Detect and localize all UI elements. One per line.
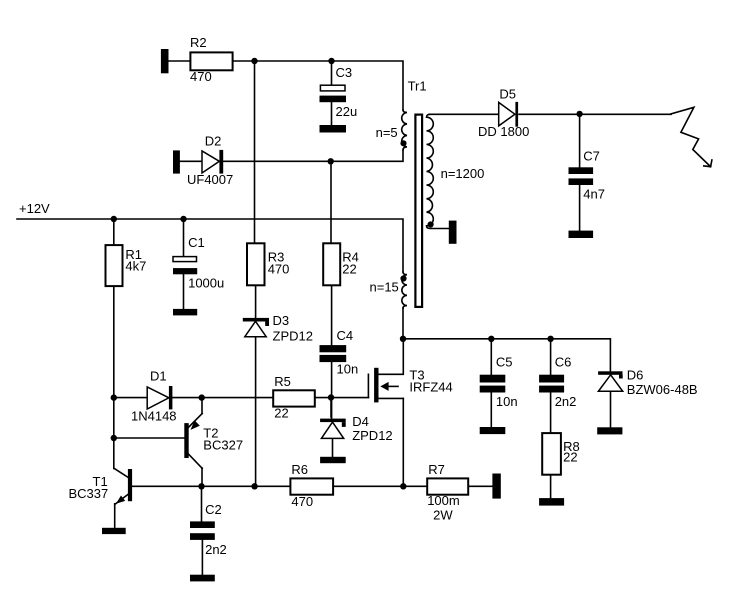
svg-text:10n: 10n [496,394,518,409]
wire C1 column [183,219,185,309]
junction R2 out [251,58,257,64]
ground under D4 [320,457,346,463]
transformer Tr1 core [415,115,422,307]
transformer winding n=5 [402,110,407,150]
diode D1 [147,386,172,409]
svg-text:D1: D1 [150,369,167,384]
svg-text:ZPD12: ZPD12 [352,428,392,443]
svg-text:+12V: +12V [19,201,50,216]
junction R1 top [111,216,117,222]
transistor T2 BC327 PNP [184,414,202,469]
junction R5 gate D4 [328,394,334,400]
junction C1 top [180,216,186,222]
svg-text:2n2: 2n2 [555,394,577,409]
svg-text:4n7: 4n7 [583,187,605,202]
svg-text:4k7: 4k7 [125,259,146,274]
svg-text:UF4007: UF4007 [187,172,233,187]
svg-text:D2: D2 [205,134,222,149]
wire n15 bottom to drain junction [402,308,404,339]
capacitor C7 [569,167,594,185]
resistor R5 [273,390,315,406]
ground under D6 [597,427,622,434]
svg-text:100m: 100m [427,493,460,508]
svg-text:2W: 2W [433,508,453,523]
wire R4 C4 column [331,161,333,457]
svg-text:470: 470 [291,494,313,509]
svg-text:C6: C6 [555,355,572,370]
svg-text:2n2: 2n2 [205,542,227,557]
svg-text:D4: D4 [352,414,369,429]
wire T3 source down [402,398,404,486]
junction C3 top [328,58,334,64]
resistor R7 [427,478,468,494]
ground under C5 [480,427,506,434]
svg-text:BZW06-48B: BZW06-48B [627,382,698,397]
wire T1 emitter to ground [114,504,116,528]
svg-text:22: 22 [342,262,356,277]
transistor T3 IRFZ44 NMOS [368,339,403,402]
wire D1 R5 gate line [114,397,369,399]
wire drain rail to C5 C6 D6 [403,339,610,372]
svg-text:DD 1800: DD 1800 [478,124,529,139]
wire R2R3 column [255,61,256,486]
wire D4 R5 junction [330,398,332,417]
resistor R4 [323,243,340,285]
wire C5 column [490,339,492,427]
junction T1 base C2 [198,483,204,489]
wire D2 line to transformer n=5 bottom [180,150,403,161]
capacitor C1 electrolytic [173,257,197,275]
svg-text:C5: C5 [496,355,513,370]
transformer winding n=15 [402,272,407,308]
wire C3 column [331,61,333,125]
pad terminal P2 left of D2 [173,150,180,173]
wire secondary top to D5 and output [429,113,671,115]
transformer winding n=1200 [427,114,449,228]
wire R1 column middle [113,286,115,469]
svg-text:D3: D3 [273,313,290,328]
svg-text:BC337: BC337 [69,486,109,501]
svg-text:R7: R7 [428,462,445,477]
wire T2 base line [114,437,185,439]
junction C6 top [547,336,553,342]
junction T2 base line [111,435,117,441]
svg-text:22: 22 [274,406,288,421]
wire R6 R7 line [132,485,493,487]
wire C6 R8 column [550,339,552,498]
junction D1 cathode T2 emitter [199,394,205,400]
wire D6 to ground [610,391,612,427]
svg-text:22u: 22u [336,104,358,119]
svg-text:C2: C2 [205,502,222,517]
wire zigzag output arrow [671,107,711,166]
resistor R8 [542,433,561,475]
capacitor C6 [539,375,564,393]
capacitor C4 [320,345,347,362]
diode D2 [202,150,223,174]
svg-text:C4: C4 [337,328,354,343]
ground under C2 [190,575,215,582]
wire C7 column [579,114,581,230]
capacitor C5 [480,375,506,393]
ground under R8 [539,498,564,506]
svg-text:C7: C7 [583,148,600,163]
ground under T1 [102,528,126,534]
junction D1 anode [111,394,117,400]
wire T2 emitter vertical [201,398,203,414]
phase dot n=5 [400,140,406,146]
capacitor C2 [190,521,215,540]
zener diode D3 [243,318,269,337]
junction T3 drain [400,336,406,342]
phase dot n=15 [400,275,406,281]
wire C2 column [201,486,204,574]
svg-text:D5: D5 [499,87,516,102]
svg-text:10n: 10n [337,362,359,377]
junction R4 top [328,158,334,164]
pad terminal P1 left of R2 [161,49,169,73]
resistor R1 [106,245,123,286]
junction T3 source R7 [400,483,406,489]
junction C7 top [576,111,582,117]
diode D5 [499,102,518,127]
zener diode D4 [320,419,346,439]
ground under C1 [173,309,197,316]
svg-text:n=15: n=15 [370,280,399,295]
wire R1 column top [113,219,115,245]
svg-text:n=5: n=5 [376,125,398,140]
wire T2 collector vertical [201,468,203,486]
junction D3 anode R6 [251,483,257,489]
wire +12V rail [17,219,403,272]
transistor T1 BC337 NPN [114,469,132,505]
pad terminal P3 secondary return [449,221,457,244]
svg-text:Tr1: Tr1 [408,79,427,94]
svg-text:22: 22 [563,450,577,465]
svg-text:n=1200: n=1200 [441,166,485,181]
pad terminal P4 right of R7 [492,474,500,499]
ground under C3 [320,125,347,133]
svg-text:470: 470 [268,262,290,277]
svg-text:D6: D6 [627,367,644,382]
svg-text:R6: R6 [291,462,308,477]
svg-text:ZPD12: ZPD12 [273,329,313,344]
wire top rail R2 to transformer n=5 [169,61,404,110]
svg-text:BC327: BC327 [203,437,243,452]
svg-text:470: 470 [190,69,212,84]
svg-text:1N4148: 1N4148 [131,409,177,424]
svg-text:C3: C3 [336,65,353,80]
zener diode D6 [598,371,623,391]
svg-text:R5: R5 [274,374,291,389]
svg-text:1000u: 1000u [188,276,224,291]
capacitor C3 electrolytic [320,85,347,102]
resistor R3 [247,243,265,285]
svg-text:IRFZ44: IRFZ44 [409,380,452,395]
ground under C7 [569,231,594,238]
resistor R6 [290,478,333,494]
resistor R2 [190,52,232,70]
svg-text:R2: R2 [190,35,207,50]
phase dot n=1200 [428,221,434,227]
svg-text:C1: C1 [188,235,205,250]
junction C5 top [488,336,494,342]
